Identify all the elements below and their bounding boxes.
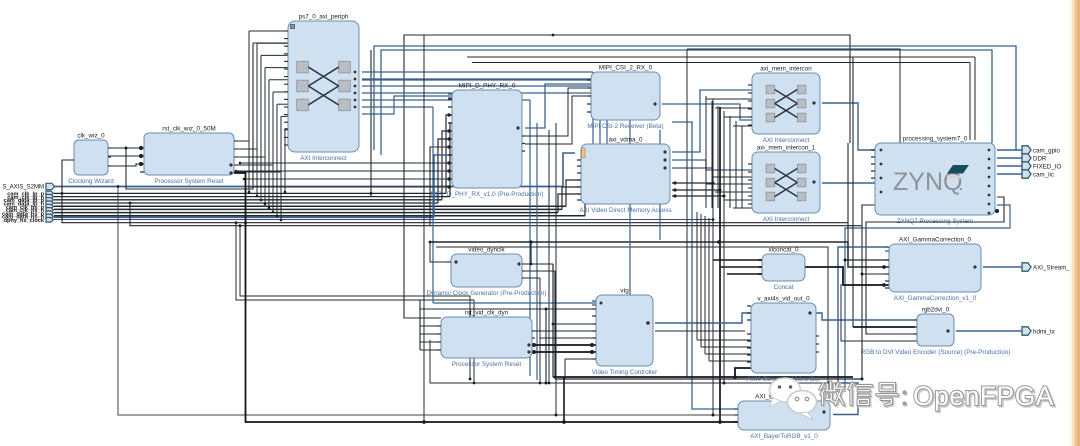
- svg-text:Video Timing Controller: Video Timing Controller: [592, 369, 657, 376]
- svg-text:RGB to DVI Video Encoder (Sour: RGB to DVI Video Encoder (Source) (Pre-P…: [861, 349, 1011, 356]
- svg-text:Clocking Wizard: Clocking Wizard: [68, 178, 114, 185]
- svg-text:rst_vid_clk_dyn: rst_vid_clk_dyn: [465, 310, 509, 317]
- svg-text:AXI Interconnect: AXI Interconnect: [300, 155, 347, 162]
- svg-text:FIXED_IO: FIXED_IO: [1033, 163, 1061, 170]
- svg-text:OpenFPGA: OpenFPGA: [913, 381, 1054, 411]
- svg-text:xlconcat_0: xlconcat_0: [768, 247, 799, 254]
- svg-text:v_axi4s_vid_out_0: v_axi4s_vid_out_0: [757, 296, 810, 303]
- svg-text:AXI Interconnect: AXI Interconnect: [763, 137, 810, 144]
- svg-text:AXI_GammaCorrection_v1_0: AXI_GammaCorrection_v1_0: [894, 295, 977, 302]
- svg-text:S_AXIS_S2MM: S_AXIS_S2MM: [2, 185, 44, 191]
- svg-text:ps7_0_axi_periph: ps7_0_axi_periph: [299, 14, 349, 21]
- svg-text:DDR: DDR: [1033, 155, 1047, 162]
- svg-text:hdmi_tx: hdmi_tx: [1033, 328, 1056, 335]
- svg-text:ZYNQ7 Processing System: ZYNQ7 Processing System: [897, 218, 974, 225]
- svg-text:AXI Video Direct Memory Access: AXI Video Direct Memory Access: [579, 207, 671, 214]
- svg-text:rgb2dvi_0: rgb2dvi_0: [922, 307, 950, 314]
- svg-text:dphy_hs_clock: dphy_hs_clock: [4, 218, 45, 224]
- svg-text:processing_system7_0: processing_system7_0: [903, 136, 968, 143]
- svg-text:AXI Interconnect: AXI Interconnect: [763, 216, 810, 223]
- svg-text:axi_vdma_0: axi_vdma_0: [609, 137, 643, 144]
- svg-text:MIPI_D_PHY_RX_0: MIPI_D_PHY_RX_0: [459, 83, 516, 90]
- svg-text:Processor System Reset: Processor System Reset: [154, 178, 224, 185]
- svg-text:vtg: vtg: [620, 288, 629, 295]
- svg-text:clk_wiz_0: clk_wiz_0: [77, 133, 105, 140]
- svg-text:rst_clk_wiz_0_50M: rst_clk_wiz_0_50M: [162, 126, 216, 133]
- svg-text:AXI_GammaCorrection_0: AXI_GammaCorrection_0: [899, 237, 972, 244]
- svg-text:AXI_BayerToRGB_v1_0: AXI_BayerToRGB_v1_0: [750, 433, 818, 440]
- svg-text:Dynamic Clock Generator (Pre-P: Dynamic Clock Generator (Pre-Production): [426, 290, 546, 297]
- svg-text:MIPI CSI-2 Receiver (Beta): MIPI CSI-2 Receiver (Beta): [587, 123, 663, 130]
- svg-text:cam_gpio: cam_gpio: [1033, 147, 1060, 154]
- svg-text:axi_mem_intercon: axi_mem_intercon: [760, 66, 812, 73]
- svg-text:MIPI_D_PHY_RX_v1.0 (Pre-Produc: MIPI_D_PHY_RX_v1.0 (Pre-Production): [430, 191, 543, 198]
- svg-text:MIPI_CSI_2_RX_0: MIPI_CSI_2_RX_0: [599, 65, 653, 72]
- svg-text:axi_mem_intercon_1: axi_mem_intercon_1: [757, 145, 816, 152]
- svg-text:cam_iic: cam_iic: [1033, 171, 1054, 178]
- svg-text:Concat: Concat: [774, 284, 794, 291]
- svg-text:video_dynclk: video_dynclk: [468, 247, 505, 254]
- svg-text:Processor System Reset: Processor System Reset: [452, 361, 522, 368]
